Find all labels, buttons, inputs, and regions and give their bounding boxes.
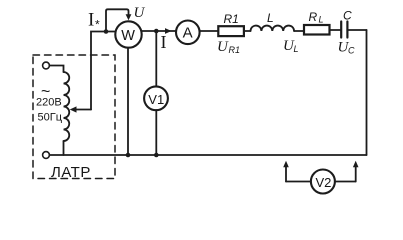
label I: [161, 32, 167, 52]
terminal (bottom input): [43, 152, 50, 159]
svg-text:ЛАТР: ЛАТР: [51, 164, 91, 181]
node junction at wattmeter input: [104, 29, 109, 34]
capacitor C: [341, 22, 347, 38]
wire V2 left lead: [286, 181, 311, 183]
svg-text:L: L: [267, 11, 274, 25]
wire C to right rail: [347, 29, 366, 31]
wire right rail down: [366, 30, 368, 155]
ammeter A: [176, 21, 200, 45]
label UC: [338, 40, 356, 56]
node junction V1 bottom: [154, 153, 159, 158]
autotransformer winding: [64, 72, 70, 141]
svg-text:W: W: [121, 28, 135, 44]
label ЛАТР: [51, 164, 91, 181]
label R1: [224, 12, 239, 26]
label C: [343, 9, 352, 23]
wire L to RL: [294, 30, 304, 32]
svg-text:U: U: [134, 5, 146, 21]
svg-text:U: U: [217, 39, 229, 55]
label UR1: [217, 39, 240, 55]
svg-text:I: I: [88, 10, 94, 31]
wire node to wattmeter: [106, 31, 116, 33]
wire V1 top lead: [155, 31, 157, 87]
svg-text:L: L: [294, 44, 299, 54]
wire W bottom lead: [127, 48, 129, 155]
svg-text:C: C: [343, 9, 352, 23]
svg-text:I: I: [161, 32, 167, 52]
wire tap to node I*: [91, 32, 106, 110]
svg-text:V2: V2: [316, 175, 332, 190]
wire winding bottom to bottom rail: [63, 141, 65, 155]
tap arrow on winding: [70, 106, 91, 112]
svg-text:*: *: [95, 18, 100, 32]
wire R1 to L: [244, 30, 251, 32]
wire W to A with current arrow: [142, 28, 176, 34]
label RL: [309, 10, 324, 25]
bottom rail wire: [49, 154, 366, 156]
resistor RL: [304, 25, 330, 35]
voltmeter V2 probes left arrow: [283, 161, 289, 182]
svg-text:C: C: [348, 46, 355, 56]
svg-text:220В: 220В: [36, 97, 62, 109]
source label ~220В 50Гц: [36, 84, 63, 124]
label L: [267, 11, 274, 25]
wire RL to C: [330, 29, 342, 31]
voltmeter V2: [311, 170, 335, 194]
svg-text:50Гц: 50Гц: [38, 112, 63, 124]
svg-text:V1: V1: [148, 92, 164, 107]
node junction W bottom: [126, 153, 131, 158]
ЛАТР enclosure (dashed box): [33, 55, 115, 179]
svg-text:R1: R1: [224, 12, 239, 26]
wire V2 right lead: [335, 181, 356, 183]
label I* (wattmeter marked current terminal): [88, 10, 100, 32]
svg-text:R1: R1: [229, 45, 241, 55]
label U: [134, 5, 146, 21]
wire A to R1: [200, 30, 219, 32]
voltmeter V1: [144, 86, 168, 110]
wire V1 bottom lead: [155, 110, 157, 155]
wattmeter voltage branch with U arrow: [106, 9, 131, 31]
terminal (top input): [43, 62, 50, 69]
voltmeter V2 probes right arrow: [353, 161, 359, 182]
wire top terminal to winding: [49, 66, 63, 73]
wattmeter W: [115, 21, 141, 47]
resistor R1: [218, 26, 244, 36]
label UL: [283, 38, 299, 54]
inductor L: [251, 26, 295, 31]
svg-text:R: R: [309, 10, 318, 24]
svg-text:A: A: [183, 25, 193, 42]
svg-text:L: L: [319, 15, 324, 25]
node junction V1 top: [154, 29, 159, 34]
